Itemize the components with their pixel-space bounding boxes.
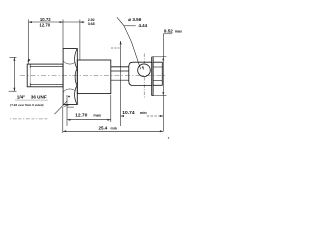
svg-text:max: max [93,114,101,118]
svg-text:max: max [175,29,183,33]
svg-text:12.70: 12.70 [75,113,88,119]
svg-text:9.52: 9.52 [164,29,173,34]
svg-text:3.68: 3.68 [88,22,95,26]
svg-text:10.74: 10.74 [122,110,135,116]
svg-text:12.70: 12.70 [39,22,50,27]
svg-text:(7.92 over flats 6 sided): (7.92 over flats 6 sided) [10,103,43,107]
svg-text:1/4": 1/4" [17,95,26,100]
svg-text:25.4: 25.4 [99,126,108,131]
svg-text:⌀ 3.56: ⌀ 3.56 [128,17,141,22]
svg-text:min: min [140,111,147,115]
svg-text:4.44: 4.44 [139,23,148,28]
svg-text:36 UNF: 36 UNF [31,95,47,100]
svg-text:min: min [111,126,117,130]
